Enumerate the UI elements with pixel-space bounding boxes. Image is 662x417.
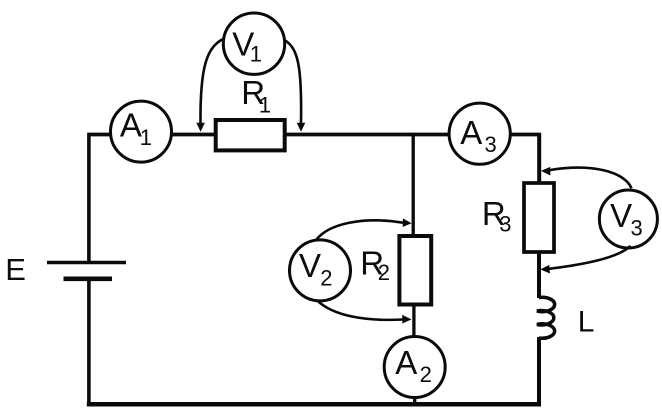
wire left vertical upper, top corner to battery bbox=[87, 133, 91, 262]
wire middle branch, node J1 to R2 bbox=[412, 135, 415, 237]
label E bbox=[5, 252, 26, 287]
svg-text:1: 1 bbox=[140, 125, 152, 150]
ammeter A1 bbox=[111, 101, 172, 162]
inductor L bbox=[537, 297, 555, 338]
wire R1 to node J1 bbox=[284, 133, 413, 137]
wire R3 to inductor bbox=[537, 251, 541, 299]
arrow V1 left lead bbox=[196, 39, 223, 132]
ammeter A2 bbox=[384, 337, 445, 398]
label R1 bbox=[241, 74, 271, 117]
resistor R1 bbox=[216, 120, 285, 150]
arrow V1 right lead bbox=[284, 40, 305, 132]
svg-text:3: 3 bbox=[485, 132, 497, 157]
svg-text:A: A bbox=[120, 107, 142, 144]
wire top-left from corner to A1 bbox=[89, 133, 112, 137]
svg-text:1: 1 bbox=[250, 41, 262, 66]
svg-text:2: 2 bbox=[320, 265, 332, 290]
wire node J1 to A3 bbox=[413, 133, 451, 137]
wire inductor to bottom-right corner bbox=[537, 337, 539, 404]
wire A2 to bottom bbox=[413, 396, 416, 405]
arrow V3 upper lead bbox=[541, 167, 632, 188]
ammeter A3 bbox=[449, 103, 510, 164]
svg-text:A: A bbox=[460, 114, 482, 151]
wire R2 to A2 bbox=[412, 305, 415, 338]
svg-text:3: 3 bbox=[499, 212, 511, 237]
svg-text:1: 1 bbox=[259, 92, 271, 117]
svg-text:V: V bbox=[299, 247, 321, 284]
svg-text:A: A bbox=[395, 344, 417, 381]
wire A3 to top-right corner bbox=[509, 133, 539, 137]
svg-text:2: 2 bbox=[420, 362, 432, 387]
arrow V2 lower lead bbox=[317, 301, 411, 324]
svg-text:E: E bbox=[5, 252, 26, 287]
wire left vertical lower, battery to bottom bbox=[87, 279, 91, 405]
resistor R3 bbox=[524, 183, 554, 252]
node J1 bbox=[412, 133, 415, 137]
wire bottom bbox=[87, 402, 541, 407]
voltmeter V3 bbox=[599, 190, 657, 248]
battery E plates bbox=[47, 263, 126, 279]
label R2 bbox=[360, 244, 390, 285]
svg-text:V: V bbox=[610, 197, 632, 234]
svg-text:3: 3 bbox=[631, 215, 643, 240]
resistor R2 bbox=[399, 236, 431, 305]
arrow V2 upper lead bbox=[316, 218, 412, 240]
svg-text:L: L bbox=[578, 305, 595, 338]
wire right vertical, corner to R3 bbox=[537, 133, 541, 184]
label L bbox=[578, 305, 595, 338]
voltmeter V1 bbox=[223, 13, 284, 74]
svg-text:2: 2 bbox=[378, 260, 390, 285]
wire A1 to R1 bbox=[170, 133, 217, 137]
voltmeter V2 bbox=[290, 240, 351, 301]
arrow V3 lower lead bbox=[540, 246, 630, 274]
label R3 bbox=[482, 195, 512, 237]
